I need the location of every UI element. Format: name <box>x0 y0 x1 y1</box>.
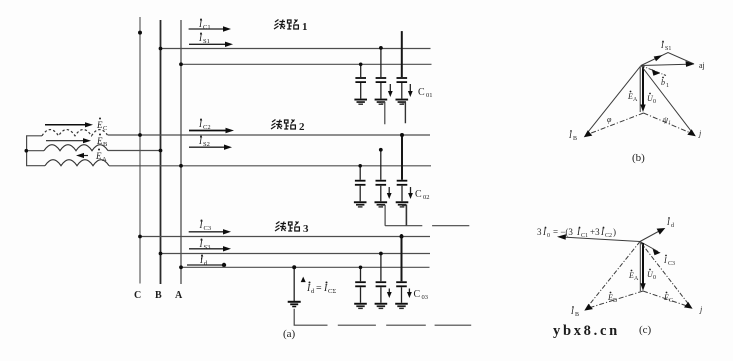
svg-text:0: 0 <box>653 275 656 281</box>
label EA (c) <box>628 270 639 282</box>
node N junction dot <box>25 149 29 153</box>
svg-text:E: E <box>95 151 102 161</box>
svg-text:01: 01 <box>426 92 433 99</box>
svg-text:1: 1 <box>302 21 308 33</box>
capacitor C3c riser <box>401 234 403 281</box>
earth line dash of line2 <box>432 225 469 227</box>
label U0 (c) <box>647 269 656 281</box>
svg-text:C: C <box>103 125 107 132</box>
svg-text:C1: C1 <box>203 24 211 31</box>
svg-text:ψ₁: ψ₁ <box>663 115 671 124</box>
svg-text:φ: φ <box>607 115 612 124</box>
arrow I_S1 <box>189 42 233 47</box>
junction dot cap C3a <box>359 266 363 270</box>
label 3I0 right (b) <box>699 61 705 70</box>
vector UC long right (c) <box>640 242 690 307</box>
svg-text:B: B <box>613 298 617 304</box>
capacitor C2c earth tail <box>402 205 406 225</box>
capacitor C2a stem <box>359 166 361 180</box>
svg-text:(b): (b) <box>632 152 645 164</box>
junction dot cap C2a <box>358 164 362 168</box>
svg-text:S3: S3 <box>204 244 211 251</box>
capacitor C2b riser <box>380 150 382 180</box>
arrow I_C3 <box>189 229 231 234</box>
capacitor C3a stem <box>360 267 362 281</box>
capacitor C1c riser <box>401 31 403 77</box>
vector UB long left (c) <box>587 242 640 308</box>
line3 conductor B <box>161 253 431 255</box>
svg-text:E: E <box>96 136 103 146</box>
label 线路2 <box>271 120 305 134</box>
capacitor C1c earth tail <box>402 103 406 124</box>
label IB (c) <box>570 306 579 318</box>
svg-text:=: = <box>316 283 322 294</box>
label I_S3 <box>199 239 211 252</box>
label I_S1 (b) <box>660 41 671 52</box>
fault earth tail to earth line <box>294 309 327 326</box>
svg-text:S1: S1 <box>665 46 671 52</box>
svg-text:3: 3 <box>303 223 309 235</box>
junction dot on bus C at phase C level <box>138 31 142 35</box>
fault current arrow up <box>301 277 306 283</box>
svg-text:A: A <box>102 156 107 163</box>
svg-text:B: B <box>573 136 577 142</box>
vector 3I0 left long <box>562 237 640 242</box>
capacitor C3b riser <box>380 254 382 282</box>
label UC (b) <box>698 129 702 138</box>
EMF arrow phase B <box>46 138 91 143</box>
bus A (right vertical bus) <box>180 20 182 284</box>
capacitor C2b <box>375 180 388 208</box>
svg-text:I: I <box>660 41 664 50</box>
capacitor C1a stem <box>360 64 362 77</box>
chord right (c) <box>643 291 690 307</box>
junction dot riser C3c on conductor C <box>400 235 404 239</box>
svg-text:I: I <box>570 307 574 316</box>
junction dot cap1 on conductor A <box>359 63 363 67</box>
junction dot line3 conductor A at bus A <box>179 265 183 269</box>
label I_C1 <box>198 19 211 32</box>
bus C (left vertical bus) <box>139 17 141 284</box>
svg-text:C: C <box>415 189 422 200</box>
junction dot line1 conductor A at bus A <box>179 62 183 66</box>
vector EA vertical thin <box>639 67 641 112</box>
capacitor C1b earth tail <box>381 103 385 125</box>
label I_S1 <box>198 33 210 46</box>
chord left (dash-dot) <box>586 113 644 135</box>
svg-text:C3: C3 <box>668 261 675 267</box>
transformer neutral stub <box>27 150 44 152</box>
svg-text:C1: C1 <box>581 233 588 239</box>
svg-text:C: C <box>134 290 141 301</box>
winding phase B <box>44 145 108 151</box>
label C03 <box>414 289 429 301</box>
label C01 <box>418 87 433 99</box>
junction dot riser C1b on conductor B <box>379 46 383 50</box>
arrow I_S3 <box>189 246 231 251</box>
label j (c) <box>699 305 703 314</box>
current arrow right of C3c <box>407 289 412 299</box>
label 3I0 equation (c) <box>537 227 616 239</box>
svg-text:0: 0 <box>547 233 550 239</box>
svg-text:E: E <box>96 120 103 130</box>
winding phase C (dashed) <box>42 130 108 136</box>
vector U0 vertical thick (c) <box>642 243 644 285</box>
label E_B <box>96 134 108 149</box>
earth line dashes <box>338 324 376 326</box>
label I_d <box>199 255 208 268</box>
current arrow right of C2c <box>408 187 413 199</box>
svg-text:= −(3: = −(3 <box>553 227 573 237</box>
svg-text:1: 1 <box>666 83 669 89</box>
junction dot bus A / phase A wire <box>179 164 183 168</box>
capacitor C2a <box>354 180 367 208</box>
vector triangle upper <box>641 53 694 66</box>
winding phase A <box>45 160 109 166</box>
svg-text:C: C <box>418 87 425 98</box>
svg-text:B: B <box>575 312 579 318</box>
current arrow between C3b and C3c <box>387 289 392 299</box>
svg-text:2: 2 <box>299 121 305 133</box>
svg-text:0: 0 <box>653 99 656 105</box>
label UB (b) <box>568 130 577 142</box>
EMF arrow phase A (short, pointing left) <box>76 153 88 158</box>
capacitor C1b riser <box>380 48 382 77</box>
bus B (middle vertical bus) <box>160 20 162 284</box>
svg-text:I: I <box>663 256 667 265</box>
junction dot line3 conductor B at bus B <box>159 252 163 256</box>
svg-text:C: C <box>669 298 673 304</box>
junction dot riser C3b on conductor B <box>379 252 383 256</box>
junction dot fault branch <box>292 265 296 269</box>
capacitor C2b earth tail <box>381 205 385 225</box>
label E_C <box>96 118 107 133</box>
vector EA vertical thin (c) <box>639 243 641 291</box>
svg-text:C3: C3 <box>204 225 212 232</box>
wire phase C to buses and line2 top conductor <box>108 134 430 136</box>
arrow I_C2 <box>189 128 234 134</box>
svg-text:aj: aj <box>699 61 705 70</box>
wire phase A to buses and line2 bottom conductor <box>109 165 431 167</box>
line1 conductor B <box>161 48 431 50</box>
vector IC1 short <box>641 66 666 76</box>
svg-text:CΣ: CΣ <box>328 288 336 295</box>
junction dot line3 conductor C at bus C <box>138 235 142 239</box>
arrow I_S2 <box>189 145 232 150</box>
svg-text:C2: C2 <box>605 233 612 239</box>
svg-text:C: C <box>414 289 421 300</box>
line1 conductor A <box>181 63 432 65</box>
chord left (c) <box>587 291 643 309</box>
svg-text:02: 02 <box>423 194 430 201</box>
transformer left rail <box>27 136 45 166</box>
label EB chord (c) <box>607 292 617 304</box>
svg-text:B: B <box>103 141 108 148</box>
svg-text:): ) <box>613 227 616 237</box>
arrowheads for (c) <box>557 234 566 240</box>
vector 3I0 right <box>641 64 688 65</box>
label C02 <box>415 189 430 201</box>
junction dot bus B / phase B wire <box>159 149 163 153</box>
svg-text:b: b <box>661 78 665 87</box>
junction dot line1 conductor B at bus B <box>159 47 163 51</box>
svg-text:A: A <box>175 290 183 301</box>
label Id=ICsum <box>306 282 336 296</box>
free node dot riser C2b <box>379 148 383 152</box>
label U0 (b) <box>647 93 656 105</box>
capacitor C1a <box>354 77 367 105</box>
svg-text:B: B <box>155 290 162 301</box>
svg-text:+3: +3 <box>590 227 600 237</box>
capacitor C1c <box>396 77 409 105</box>
vector Id up right <box>640 230 662 242</box>
chord right (dash-dot) <box>644 113 694 134</box>
svg-text:A: A <box>633 97 638 103</box>
label E_A <box>95 149 107 164</box>
EMF arrow phase C <box>45 122 93 127</box>
label I_C2 <box>198 119 211 132</box>
junction dot bus C / phase C wire <box>138 133 142 137</box>
capacitor C3b <box>375 281 388 309</box>
earth line of line2 <box>385 225 422 227</box>
junction dot riser C2c on conductor C <box>400 133 404 137</box>
fault branch wire <box>293 267 295 301</box>
capacitor C3a <box>354 281 367 309</box>
arrow I_C1 <box>189 26 231 31</box>
label IC3 (c) <box>663 255 675 267</box>
capacitor C2c riser <box>401 134 403 180</box>
svg-text:3: 3 <box>537 227 542 237</box>
label Id (c) <box>666 217 674 229</box>
vector IC3 short <box>640 242 658 252</box>
label I_S2 <box>198 136 210 149</box>
label IC1 (b) <box>661 77 669 89</box>
svg-text:(c): (c) <box>639 324 652 336</box>
svg-text:ybx8.cn: ybx8.cn <box>553 323 620 339</box>
line3 conductor C <box>140 236 430 238</box>
svg-text:d: d <box>671 223 674 229</box>
arrow I_d (ends with dot) <box>187 263 226 267</box>
svg-text:A: A <box>634 276 639 282</box>
label 线路3 <box>275 222 309 236</box>
current arrow between C2b and C2c <box>387 187 392 199</box>
label EA (b) <box>627 91 638 103</box>
label I_C3 <box>199 220 212 233</box>
capacitor C2c <box>396 180 409 208</box>
vector UB long left <box>586 66 641 135</box>
svg-text:(a): (a) <box>283 328 296 340</box>
arrowheads for (b) <box>686 61 695 67</box>
capacitor C1b <box>375 77 388 105</box>
capacitor C3c <box>395 281 408 309</box>
vector UC long right <box>641 66 693 134</box>
svg-text:I: I <box>568 131 572 140</box>
svg-text:I: I <box>666 218 670 227</box>
fault earth symbol <box>288 301 301 308</box>
svg-text:03: 03 <box>422 294 429 301</box>
current arrow between C1b and C1c <box>388 84 393 97</box>
line3 conductor A <box>181 266 430 268</box>
label 线路1 <box>274 20 308 34</box>
wire phase B from winding to bus B <box>108 150 161 152</box>
current arrow right of C1c <box>408 84 413 97</box>
label EC chord (c) <box>663 292 673 304</box>
vector U0 vertical thick <box>642 67 644 106</box>
